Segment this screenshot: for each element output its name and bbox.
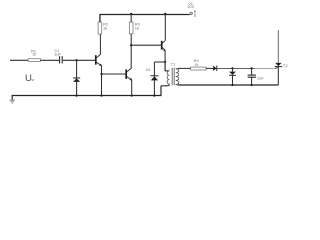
node rail R3	[130, 13, 132, 15]
node D4 top	[231, 67, 233, 69]
svg-text:1k: 1k	[135, 26, 139, 31]
secondary winding	[176, 69, 179, 85]
node Q1 emitter ground	[100, 95, 102, 97]
diode D1	[146, 62, 159, 96]
ground rail	[12, 86, 161, 100]
capacitor C2	[248, 68, 265, 85]
transformer T1	[161, 61, 179, 86]
node Q2 emitter ground	[131, 95, 133, 97]
svg-text:1uF: 1uF	[54, 51, 61, 56]
wire Q3 emitter down	[164, 51, 166, 71]
wire Q3 collector to rail	[164, 14, 166, 40]
transistor Q2	[126, 68, 132, 80]
resistor R4	[191, 58, 206, 70]
wire primary top	[165, 62, 169, 71]
secondary top lead	[176, 67, 178, 69]
thyristor T2	[275, 30, 289, 85]
wire secondary to R4	[178, 67, 191, 69]
wire node to D1	[154, 61, 165, 63]
wire Q2 collector to R3	[130, 34, 132, 69]
svg-text:D1: D1	[146, 67, 152, 72]
wire input lead	[10, 59, 28, 61]
svg-text:1uF: 1uF	[257, 75, 264, 80]
node D2 ground	[76, 95, 78, 97]
capacitor C1	[54, 48, 62, 63]
svg-text:T1: T1	[171, 61, 176, 66]
svg-text:1k: 1k	[103, 25, 107, 30]
top rail	[100, 15, 190, 23]
svg-text:10V: 10V	[187, 4, 194, 9]
diode D2	[73, 60, 80, 95]
node Q1 emitter / Q2 base	[100, 73, 102, 75]
ground symbol	[9, 100, 15, 103]
node rail Q3	[164, 13, 166, 15]
node input junction	[75, 59, 77, 61]
node D1 ground	[153, 95, 155, 97]
wire R1 to C1	[41, 59, 60, 61]
resistor R2	[98, 14, 109, 34]
wire Q1 collector to R2	[99, 34, 101, 55]
secondary ground rail	[178, 84, 278, 86]
resistor R3	[129, 14, 140, 34]
node Q3 emitter / D1 / primary	[164, 61, 166, 63]
core	[171, 68, 173, 85]
diode D3 series	[213, 66, 217, 71]
primary bottom lead	[161, 84, 169, 86]
svg-text:1k: 1k	[32, 52, 36, 57]
transistor Q3	[162, 40, 166, 51]
node D4 ground	[231, 84, 233, 86]
resistor R1	[28, 48, 40, 61]
wire R4 to D3	[206, 67, 213, 69]
supply terminal V1	[187, 1, 196, 16]
wire D3 to thyristor	[217, 67, 275, 69]
svg-text:1k: 1k	[194, 62, 198, 67]
node C2 ground	[251, 84, 253, 86]
wire C1 to Q1 base	[63, 59, 95, 61]
primary winding	[167, 71, 169, 84]
diode D4 shunt	[229, 68, 236, 85]
wire Q2 emitter to ground	[131, 80, 133, 95]
wire to Q3 base	[131, 44, 161, 46]
svg-text:T2: T2	[283, 63, 288, 68]
wire Q1 emitter to Q2 base	[102, 73, 126, 75]
node R3 branch to Q3 base	[130, 44, 132, 46]
node C2 top	[250, 67, 252, 69]
transistor Q1	[96, 55, 102, 67]
secondary bottom lead	[176, 83, 178, 86]
wire Q1 emitter down	[101, 66, 103, 96]
